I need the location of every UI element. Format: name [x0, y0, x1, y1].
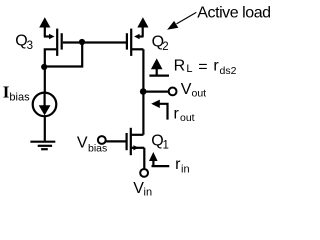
- svg-text:=: =: [198, 58, 207, 75]
- svg-text:bias: bias: [9, 91, 30, 103]
- current source Ibias: [33, 93, 57, 117]
- svg-text:3: 3: [27, 40, 33, 52]
- wire: Q2 drain rail down to Q1 drain: [142, 49, 144, 135]
- power supply arrow (Q2 source): [137, 17, 148, 36]
- svg-text:bias: bias: [88, 142, 107, 154]
- transistor Q1: [127, 128, 145, 155]
- terminal Vout open circle: [169, 88, 177, 96]
- svg-text:1: 1: [163, 140, 169, 152]
- terminal Vbias open circle: [98, 136, 106, 144]
- svg-text:in: in: [181, 163, 190, 175]
- wire: current source to ground: [44, 116, 46, 141]
- svg-text:out: out: [192, 87, 207, 99]
- svg-text:in: in: [144, 186, 153, 198]
- svg-text:r: r: [213, 58, 219, 75]
- svg-text:R: R: [174, 58, 186, 75]
- node: gate junction dot: [79, 39, 85, 45]
- annotation arrow: Active load pointer: [167, 12, 196, 29]
- svg-text:V: V: [77, 135, 88, 152]
- transistor Q2: [127, 29, 144, 56]
- wire: drain node down to current source: [44, 67, 46, 94]
- svg-text:r: r: [174, 106, 180, 123]
- svg-text:out: out: [180, 112, 195, 124]
- wire: diode connection from gate node down to drain node: [45, 43, 82, 67]
- wire: gate of Q3 to gate of Q2: [63, 41, 127, 43]
- wire: Q1 source down to Vin terminal: [143, 148, 145, 169]
- wire: Vbias terminal to Q1 gate: [106, 140, 127, 142]
- node: Vout junction dot: [140, 88, 147, 95]
- rout looking-into arrow: [151, 100, 167, 120]
- power supply arrow (Q3 source): [39, 17, 50, 36]
- svg-text:V: V: [181, 81, 192, 98]
- svg-text:2: 2: [162, 41, 168, 53]
- ground: [30, 142, 55, 150]
- svg-text:Active load: Active load: [197, 5, 270, 22]
- RL = rds2 looking-into arrow: [149, 58, 169, 75]
- transistor Q3: [44, 29, 62, 66]
- terminal Vin open circle: [140, 169, 148, 177]
- rin looking-into arrow: [149, 152, 169, 166]
- wire: to Vout terminal: [143, 90, 168, 92]
- svg-text:ds2: ds2: [220, 65, 237, 77]
- node: Q3 drain junction dot: [41, 64, 47, 70]
- svg-text:L: L: [186, 63, 192, 75]
